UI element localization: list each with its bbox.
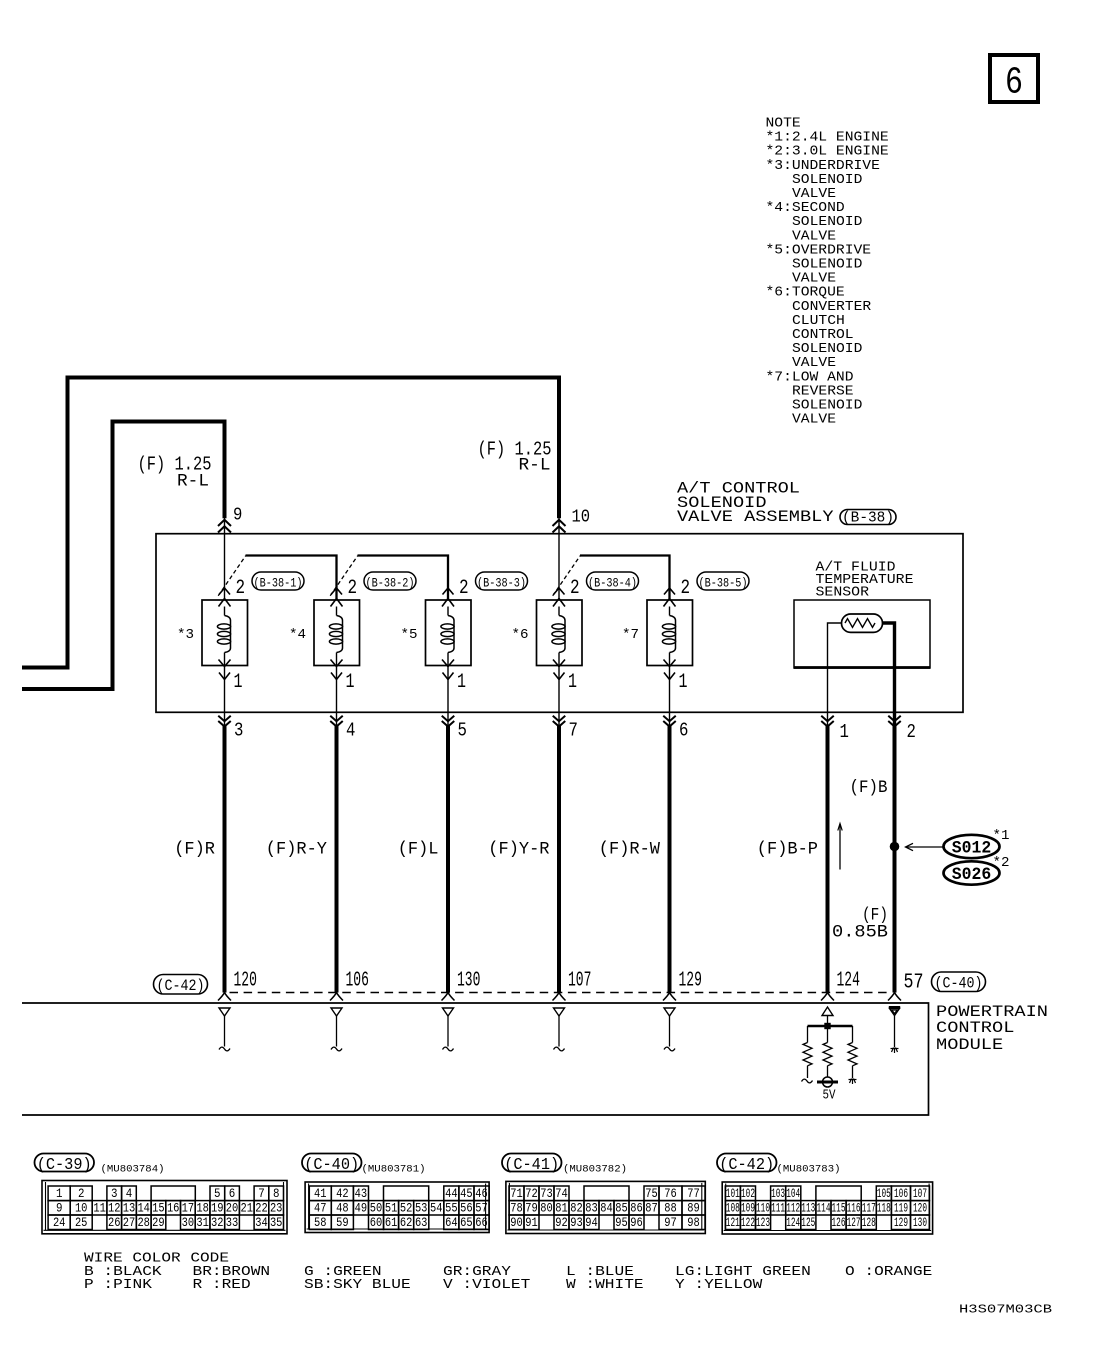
wire sensor pin2 (thick) — [883, 623, 895, 726]
wire pin 2 to PCM (thick) — [893, 725, 897, 992]
svg-text:12: 12 — [108, 1201, 121, 1215]
svg-text:*5: *5 — [401, 627, 418, 643]
svg-text:MODULE: MODULE — [936, 1036, 1003, 1054]
resistor R1 — [803, 1043, 812, 1066]
svg-text:10: 10 — [75, 1201, 88, 1215]
lead 57 ground hash — [891, 1048, 899, 1054]
svg-text:9: 9 — [233, 504, 242, 525]
svg-text:108: 108 — [726, 1201, 740, 1215]
svg-text:124: 124 — [837, 968, 860, 992]
svg-text:26: 26 — [108, 1216, 121, 1230]
svg-text:9: 9 — [56, 1201, 63, 1215]
svg-text:101: 101 — [726, 1187, 740, 1201]
resistor branch leads — [808, 1026, 853, 1043]
A/T control solenoid valve assembly box B-38 — [156, 534, 963, 713]
svg-text:93: 93 — [570, 1216, 583, 1230]
solenoid pin 2 terminal symbol (B-38-5) — [664, 588, 676, 607]
svg-text:81: 81 — [555, 1201, 568, 1215]
svg-text:(F)R: (F)R — [174, 840, 215, 860]
connector C-42 stadium — [154, 975, 208, 996]
wire pin 3 to PCM (thick) — [223, 725, 227, 992]
connector stadium B-38-1 — [252, 572, 304, 590]
connector separation dashed line — [230, 992, 891, 994]
svg-text:P :PINK: P :PINK — [84, 1277, 153, 1293]
svg-text:125: 125 — [801, 1216, 815, 1230]
svg-text:(B-38-4): (B-38-4) — [588, 576, 637, 590]
svg-text:89: 89 — [687, 1201, 700, 1215]
svg-text:64: 64 — [445, 1216, 458, 1230]
svg-text:86: 86 — [630, 1201, 643, 1215]
wire pin9 to solenoid 1 (thin) — [224, 518, 226, 600]
dashed branch at solenoid4 pin2 — [553, 556, 581, 596]
lead continuation squiggle 129 — [664, 1047, 675, 1051]
assembly connector terminal (pin 6) chevrons — [663, 716, 676, 727]
svg-text:2: 2 — [459, 577, 469, 600]
wire pin 1 to PCM (thick) — [826, 725, 830, 992]
svg-text:88: 88 — [664, 1201, 677, 1215]
powertrain control module box — [22, 1003, 929, 1115]
solenoid pin 2 terminal symbol (B-38-4) — [553, 588, 565, 607]
svg-text:117: 117 — [862, 1201, 876, 1215]
svg-text:113: 113 — [801, 1201, 815, 1215]
wire pin 6 to PCM (thick) — [668, 725, 672, 992]
svg-text:107: 107 — [913, 1187, 927, 1201]
assembly connector terminal (pin 1) chevrons — [821, 716, 834, 727]
svg-text:21: 21 — [241, 1201, 254, 1215]
svg-text:62: 62 — [400, 1216, 413, 1230]
PCM internal lead 106 — [336, 1016, 338, 1047]
svg-text:97: 97 — [664, 1216, 677, 1230]
PCM terminal 124 (triangle up) — [822, 1007, 833, 1016]
svg-text:77: 77 — [687, 1187, 700, 1201]
svg-text:(B-38-1): (B-38-1) — [254, 576, 303, 590]
svg-text:35: 35 — [270, 1216, 283, 1230]
wire sensor pin1 (thin) — [828, 623, 842, 726]
jumper wire solenoid2 to solenoid3 — [358, 556, 449, 601]
svg-text:111: 111 — [771, 1201, 785, 1215]
wire pin10 to solenoid 4 (thin) — [558, 518, 560, 600]
connector splay symbol at terminal 130 — [442, 993, 455, 1001]
solenoid coil B-38-4 box — [537, 600, 583, 666]
svg-text:3: 3 — [111, 1187, 118, 1201]
svg-text:SB:SKY BLUE: SB:SKY BLUE — [304, 1277, 411, 1293]
svg-text:(F)L: (F)L — [398, 840, 439, 860]
wire pin 5 to PCM (thick) — [446, 725, 450, 992]
svg-text:71: 71 — [510, 1187, 523, 1201]
svg-text:1: 1 — [457, 671, 466, 694]
svg-text:107: 107 — [568, 968, 591, 992]
solenoid pin 2 terminal symbol (B-38-3) — [442, 588, 454, 607]
svg-text:2: 2 — [681, 577, 691, 600]
resistor network bus — [808, 1025, 853, 1027]
svg-text:(F)B: (F)B — [850, 778, 888, 798]
svg-text:53: 53 — [415, 1201, 428, 1215]
svg-text:42: 42 — [336, 1187, 349, 1201]
coil winding B-38-3 — [441, 607, 454, 666]
lead continuation squiggle 106 — [331, 1047, 342, 1051]
svg-text:106: 106 — [346, 968, 369, 992]
svg-text:1: 1 — [346, 671, 355, 694]
svg-text:VALVE ASSEMBLY: VALVE ASSEMBLY — [677, 508, 834, 526]
svg-text:18: 18 — [196, 1201, 209, 1215]
svg-text:1: 1 — [679, 671, 688, 694]
thermistor RT1 stadium — [842, 614, 883, 632]
wire solenoid B-38-4 to assembly connector — [558, 666, 560, 727]
svg-text:41: 41 — [314, 1187, 327, 1201]
svg-text:5: 5 — [214, 1187, 221, 1201]
A/T fluid temperature sensor label — [816, 560, 914, 600]
solenoid pin 1 terminal symbol (B-38-1) — [219, 660, 231, 680]
solenoid pin 2 terminal symbol (B-38-1) — [219, 588, 231, 607]
svg-text:124: 124 — [786, 1216, 800, 1230]
svg-text:47: 47 — [314, 1201, 327, 1215]
svg-text:15: 15 — [152, 1201, 165, 1215]
svg-text:119: 119 — [894, 1201, 908, 1215]
svg-text:1: 1 — [56, 1187, 63, 1201]
junction dot on wire 57 — [890, 842, 900, 852]
svg-text:130: 130 — [913, 1216, 927, 1230]
svg-text:46: 46 — [475, 1187, 488, 1201]
svg-text:50: 50 — [370, 1201, 383, 1215]
svg-text:(MU803781): (MU803781) — [362, 1163, 426, 1175]
PCM input terminal 120 (triangle) — [219, 1008, 230, 1016]
svg-text:(B-38-5): (B-38-5) — [699, 576, 748, 590]
svg-text:110: 110 — [756, 1201, 770, 1215]
svg-text:48: 48 — [336, 1201, 349, 1215]
PCM input terminal 129 (triangle) — [664, 1008, 675, 1016]
pin 9 connector chevrons — [218, 520, 231, 533]
svg-text:*2: *2 — [993, 855, 1010, 871]
svg-text:S012: S012 — [952, 839, 992, 859]
svg-text:(C-42): (C-42) — [719, 1155, 774, 1174]
assembly connector terminal (pin 2) chevrons — [888, 716, 901, 727]
connector stadium B-38-2 — [364, 572, 416, 590]
PCM input terminal 107 (triangle) — [554, 1008, 565, 1016]
svg-text:4: 4 — [126, 1187, 133, 1201]
coil winding B-38-4 — [552, 607, 565, 666]
svg-text:(C-40): (C-40) — [935, 975, 983, 993]
connector splay symbol at terminal 57 — [888, 993, 901, 1001]
wire solenoid B-38-5 to assembly connector — [669, 666, 671, 727]
svg-text:65: 65 — [460, 1216, 473, 1230]
svg-text:33: 33 — [226, 1216, 239, 1230]
svg-text:60: 60 — [370, 1216, 383, 1230]
svg-text:30: 30 — [182, 1216, 195, 1230]
svg-text:61: 61 — [385, 1216, 398, 1230]
svg-text:59: 59 — [336, 1216, 349, 1230]
svg-text:44: 44 — [445, 1187, 458, 1201]
svg-text:31: 31 — [196, 1216, 209, 1230]
svg-text:(MU803782): (MU803782) — [563, 1163, 627, 1175]
wire label (F) 0.85B — [832, 906, 888, 943]
svg-text:127: 127 — [847, 1216, 861, 1230]
PCM terminal 57 (triangle with bar) — [889, 1007, 900, 1015]
svg-text:0.85B: 0.85B — [832, 923, 888, 943]
svg-text:2: 2 — [236, 577, 246, 600]
svg-text:*1: *1 — [993, 828, 1010, 844]
svg-text:79: 79 — [525, 1201, 538, 1215]
svg-text:102: 102 — [741, 1187, 755, 1201]
coil winding B-38-5 — [662, 607, 675, 666]
PCM internal lead 107 — [558, 1016, 560, 1047]
svg-text:27: 27 — [123, 1216, 136, 1230]
svg-text:(MU803784): (MU803784) — [101, 1163, 165, 1175]
svg-text:R-L: R-L — [177, 471, 209, 491]
svg-text:11: 11 — [93, 1201, 106, 1215]
svg-text:32: 32 — [211, 1216, 224, 1230]
svg-text:1: 1 — [840, 721, 849, 743]
svg-text:1: 1 — [568, 671, 577, 694]
wire pin 7 to PCM (thick) — [557, 725, 561, 992]
svg-text:96: 96 — [630, 1216, 643, 1230]
jumper wire solenoid4 to solenoid5 — [580, 556, 670, 601]
PCM label — [936, 1003, 1048, 1054]
svg-text:2: 2 — [348, 577, 358, 600]
wire pin 4 to PCM (thick) — [335, 725, 339, 992]
svg-text:75: 75 — [645, 1187, 658, 1201]
svg-text:3: 3 — [234, 720, 243, 742]
svg-text:83: 83 — [585, 1201, 598, 1215]
assembly connector terminal (pin 4) chevrons — [330, 716, 343, 727]
connector splay symbol at terminal 129 — [663, 993, 676, 1001]
svg-text:130: 130 — [457, 968, 480, 992]
svg-text:(F)B-P: (F)B-P — [757, 840, 818, 860]
direction arrow on wire 124 — [838, 824, 842, 870]
wire (F)1.25 R-L feed to pin 10 (thick) — [22, 378, 559, 668]
svg-text:90: 90 — [510, 1216, 523, 1230]
svg-text:(F)Y-R: (F)Y-R — [488, 840, 550, 860]
svg-text:115: 115 — [832, 1201, 846, 1215]
connector stadium B-38-4 — [587, 572, 639, 590]
R1 lead and continuation squiggle — [802, 1066, 813, 1083]
svg-text:(F)R-W: (F)R-W — [599, 840, 661, 860]
wire solenoid B-38-3 to assembly connector — [447, 666, 449, 727]
PCM lead 124 to resistor network — [827, 1016, 829, 1027]
solenoid pin 1 terminal symbol (B-38-5) — [664, 660, 676, 680]
coil winding B-38-1 — [217, 607, 230, 666]
svg-text:126: 126 — [832, 1216, 846, 1230]
svg-text:13: 13 — [123, 1201, 136, 1215]
svg-text:5V: 5V — [823, 1089, 837, 1104]
svg-text:7: 7 — [569, 720, 578, 742]
solenoid pin 1 terminal symbol (B-38-2) — [331, 660, 343, 680]
temperature sensor box bottom edge — [794, 666, 930, 669]
svg-text:(C-39): (C-39) — [37, 1155, 92, 1174]
svg-text:112: 112 — [786, 1201, 800, 1215]
PCM input terminal 130 (triangle) — [443, 1008, 454, 1016]
wire (F)1.25 R-L feed to pin 9 (thick) — [22, 422, 225, 690]
wire color code legend — [84, 1251, 932, 1294]
svg-text:76: 76 — [664, 1187, 677, 1201]
assembly connector terminal (pin 7) chevrons — [553, 716, 566, 727]
svg-text:129: 129 — [679, 968, 702, 992]
svg-text:28: 28 — [137, 1216, 150, 1230]
lead continuation squiggle 107 — [554, 1047, 565, 1051]
splice S012 oval — [944, 835, 1000, 859]
svg-text:120: 120 — [913, 1201, 927, 1215]
PCM internal lead 120 — [224, 1016, 226, 1047]
svg-text:(C-40): (C-40) — [304, 1155, 359, 1174]
R3 lead and ground hash — [849, 1066, 857, 1084]
svg-text:O :ORANGE: O :ORANGE — [845, 1264, 932, 1280]
svg-text:45: 45 — [460, 1187, 473, 1201]
note legend text — [766, 116, 889, 428]
svg-text:103: 103 — [771, 1187, 785, 1201]
svg-text:2: 2 — [907, 721, 916, 743]
svg-text:104: 104 — [786, 1187, 800, 1201]
coil winding B-38-2 — [329, 607, 342, 666]
solenoid coil B-38-1 box — [202, 600, 248, 666]
svg-text:56: 56 — [460, 1201, 473, 1215]
svg-text:58: 58 — [314, 1216, 327, 1230]
connector splay symbol at terminal 124 — [821, 993, 834, 1001]
svg-text:52: 52 — [400, 1201, 413, 1215]
svg-text:74: 74 — [555, 1187, 568, 1201]
svg-text:23: 23 — [270, 1201, 283, 1215]
PCM lead 57 — [894, 1016, 896, 1048]
wire solenoid B-38-2 to assembly connector — [336, 666, 338, 727]
svg-text:POWERTRAIN: POWERTRAIN — [936, 1003, 1048, 1021]
svg-text:S026: S026 — [952, 865, 992, 885]
svg-text:57: 57 — [904, 971, 924, 995]
svg-text:85: 85 — [615, 1201, 628, 1215]
connector stadium B-38-5 — [697, 572, 749, 590]
svg-text:49: 49 — [355, 1201, 368, 1215]
page number 6 box — [990, 55, 1038, 102]
connector table C-40 header — [302, 1154, 426, 1176]
svg-text:10: 10 — [572, 507, 591, 528]
svg-text:92: 92 — [555, 1216, 568, 1230]
pin 10 connector chevrons — [553, 520, 566, 533]
wire solenoid B-38-1 to assembly connector — [224, 666, 226, 727]
svg-text:6: 6 — [1005, 62, 1023, 105]
svg-text:73: 73 — [540, 1187, 553, 1201]
svg-text:54: 54 — [430, 1201, 443, 1215]
svg-text:6: 6 — [229, 1187, 236, 1201]
connector table C-39 header — [35, 1154, 165, 1176]
solenoid pin 1 terminal symbol (B-38-3) — [442, 660, 454, 680]
svg-text:2: 2 — [570, 577, 580, 600]
svg-text:121: 121 — [726, 1216, 740, 1230]
lead continuation squiggle 120 — [219, 1047, 230, 1051]
svg-text:W :WHITE: W :WHITE — [566, 1277, 644, 1293]
svg-text:84: 84 — [600, 1201, 613, 1215]
svg-text:24: 24 — [53, 1216, 66, 1230]
connector table C-41 header — [502, 1154, 627, 1176]
solenoid coil B-38-5 box — [647, 600, 693, 666]
svg-text:16: 16 — [167, 1201, 180, 1215]
assembly connector terminal (pin 3) chevrons — [218, 716, 231, 727]
svg-text:8: 8 — [273, 1187, 280, 1201]
connector label B-38 stadium — [840, 509, 896, 526]
svg-text:43: 43 — [355, 1187, 368, 1201]
connector C-40 stadium — [932, 972, 986, 993]
svg-text:80: 80 — [540, 1201, 553, 1215]
svg-text:109: 109 — [741, 1201, 755, 1215]
PCM input terminal 106 (triangle) — [331, 1008, 342, 1016]
jumper wire solenoid1 to solenoid2 — [246, 556, 337, 601]
svg-text:66: 66 — [475, 1216, 488, 1230]
svg-text:95: 95 — [615, 1216, 628, 1230]
svg-text:94: 94 — [585, 1216, 598, 1230]
temperature sensor box — [794, 600, 930, 668]
splice callout arrow — [906, 843, 945, 850]
svg-text:20: 20 — [226, 1201, 239, 1215]
svg-text:CONTROL: CONTROL — [936, 1019, 1014, 1037]
connector table C-41 pins — [506, 1181, 705, 1233]
svg-text:V :VIOLET: V :VIOLET — [443, 1277, 530, 1293]
svg-text:2: 2 — [78, 1187, 85, 1201]
solenoid pin 1 terminal symbol (B-38-4) — [553, 660, 565, 680]
PCM internal lead 130 — [447, 1016, 449, 1047]
svg-text:5: 5 — [458, 720, 467, 742]
5V supply symbol — [817, 1077, 838, 1087]
label (F)1.25 R-L left — [138, 453, 212, 491]
svg-text:*3: *3 — [177, 627, 194, 643]
solenoid pin 2 terminal symbol (B-38-2) — [331, 588, 343, 607]
svg-text:63: 63 — [415, 1216, 428, 1230]
svg-text:(C-42): (C-42) — [157, 977, 205, 995]
svg-text:129: 129 — [894, 1216, 908, 1230]
svg-text:17: 17 — [182, 1201, 195, 1215]
R2 lead — [827, 1066, 829, 1077]
assembly connector terminal (pin 5) chevrons — [442, 716, 455, 727]
svg-text:R-L: R-L — [519, 456, 551, 476]
connector table C-42 header — [717, 1154, 841, 1176]
svg-text:(F)R-Y: (F)R-Y — [266, 840, 328, 860]
svg-text:106: 106 — [894, 1187, 908, 1201]
svg-text:78: 78 — [510, 1201, 523, 1215]
svg-text:H3S07M03CB: H3S07M03CB — [959, 1303, 1052, 1317]
label (F)1.25 R-L right — [478, 438, 552, 475]
svg-text:19: 19 — [211, 1201, 224, 1215]
connector splay symbol at terminal 120 — [218, 993, 231, 1001]
svg-text:SENSOR: SENSOR — [816, 585, 870, 600]
svg-text:*7: *7 — [622, 627, 639, 643]
connector table C-42 pins — [722, 1182, 932, 1234]
svg-text:(C-41): (C-41) — [504, 1155, 559, 1174]
svg-text:98: 98 — [687, 1216, 700, 1230]
svg-text:72: 72 — [525, 1187, 538, 1201]
svg-text:25: 25 — [75, 1216, 88, 1230]
svg-text:6: 6 — [679, 720, 688, 742]
lead continuation squiggle 130 — [443, 1047, 454, 1051]
svg-text:55: 55 — [445, 1201, 458, 1215]
svg-text:57: 57 — [475, 1201, 488, 1215]
svg-text:*4: *4 — [289, 627, 306, 643]
svg-text:105: 105 — [877, 1187, 891, 1201]
connector table C-39 pins — [42, 1181, 287, 1234]
svg-text:34: 34 — [255, 1216, 268, 1230]
svg-text:91: 91 — [525, 1216, 538, 1230]
svg-text:7: 7 — [258, 1187, 265, 1201]
resistor R3 — [848, 1043, 857, 1066]
svg-text:14: 14 — [137, 1201, 150, 1215]
svg-text:82: 82 — [570, 1201, 583, 1215]
svg-text:51: 51 — [385, 1201, 398, 1215]
svg-text:120: 120 — [234, 968, 257, 992]
svg-text:(B-38-3): (B-38-3) — [477, 576, 526, 590]
svg-text:*6: *6 — [512, 627, 529, 643]
assembly title text — [677, 479, 834, 526]
svg-text:4: 4 — [346, 720, 355, 742]
thermistor RT1 zigzag — [845, 619, 875, 628]
svg-text:118: 118 — [877, 1201, 891, 1215]
svg-text:Y :YELLOW: Y :YELLOW — [675, 1277, 763, 1293]
svg-text:87: 87 — [645, 1201, 658, 1215]
connector splay symbol at terminal 107 — [553, 993, 566, 1001]
resistor network junction — [824, 1023, 830, 1029]
